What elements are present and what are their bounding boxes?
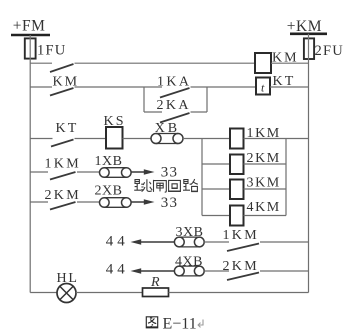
arrow from 44 (row6): [131, 239, 142, 244]
contact KM: [50, 88, 74, 96]
contact 2KA: [160, 113, 190, 123]
wire 2KA branch left drop: [143, 87, 145, 112]
svg-text:2KA: 2KA: [157, 98, 191, 113]
svg-text:XB: XB: [155, 121, 180, 136]
bus bar +KM: [290, 32, 327, 35]
contact KT: [51, 140, 74, 147]
coil 2KM: [230, 155, 244, 175]
wire 2KA branch right riser: [206, 87, 208, 112]
bottom row: wire left: [30, 292, 57, 294]
svg-text:1KM: 1KM: [223, 228, 259, 243]
wire right rail: [308, 60, 310, 293]
coil 4KM: [230, 206, 244, 226]
svg-text:33: 33: [161, 165, 178, 181]
svg-text:1KA: 1KA: [157, 75, 191, 90]
bus bar +FM: [11, 34, 50, 37]
svg-text:4KM: 4KM: [247, 200, 281, 215]
svg-text:t: t: [261, 81, 265, 95]
wire 2KM coil to bus: [244, 163, 287, 165]
wire 3XB to contact: [204, 241, 229, 243]
svg-text:3KM: 3KM: [247, 176, 281, 191]
svg-text:33: 33: [161, 195, 178, 211]
svg-text:4XB: 4XB: [175, 255, 203, 270]
arrow to trip 33 (row4): [132, 171, 149, 173]
svg-text:+KM: +KM: [287, 18, 322, 35]
wire branch 3 left: [202, 188, 230, 190]
row 3: wire: [30, 138, 52, 140]
svg-text:1KM: 1KM: [45, 157, 81, 172]
svg-text:R: R: [150, 275, 160, 290]
row 1: wire: [30, 62, 52, 64]
wire to 2XB: [77, 201, 100, 203]
wire 2KA branch bottom right: [191, 111, 208, 113]
row 2: wire: [30, 86, 52, 88]
wire 3KM coil to bus: [244, 188, 287, 190]
wire XB to bus: [183, 138, 230, 140]
wire KT coil to right rail: [270, 86, 309, 88]
arrow from 44 (row7): [131, 268, 142, 273]
link 2XB: [100, 198, 110, 208]
coil KM: [255, 53, 271, 73]
arrow to trip 33 (row5): [132, 201, 149, 203]
svg-text:+FM: +FM: [13, 18, 46, 35]
wire branch 4 left: [202, 215, 230, 217]
coil KT: [256, 78, 270, 95]
row 5: wire: [30, 201, 48, 203]
wire 2KA branch bottom left: [144, 111, 162, 113]
svg-text:1FU: 1FU: [37, 42, 66, 58]
wire resistor to right rail: [169, 292, 309, 294]
wire left rail: [29, 60, 31, 293]
svg-text:HL: HL: [57, 271, 79, 286]
link XB: [151, 134, 161, 144]
svg-text:1XB: 1XB: [95, 154, 123, 169]
svg-text:KT: KT: [56, 121, 79, 136]
wire 4XB to contact: [204, 270, 229, 272]
relay KS: [106, 127, 123, 149]
coil 1KM: [230, 129, 244, 149]
svg-text:E−11: E−11: [163, 316, 197, 333]
fuse 2FU: [304, 38, 314, 59]
svg-text:2KM: 2KM: [223, 259, 259, 274]
link 1XB: [100, 168, 110, 178]
svg-text:44: 44: [106, 261, 129, 277]
link 4XB: [174, 266, 184, 276]
wire 4KM coil to bus: [244, 215, 287, 217]
wire lamp to resistor: [76, 292, 143, 294]
wire row2 to KT coil: [191, 86, 257, 88]
wire row2: [75, 86, 163, 88]
wire KS to XB: [123, 138, 152, 140]
contact 2KM: [50, 202, 76, 210]
row 1 contact (KM): [50, 64, 74, 72]
svg-text:44: 44: [106, 233, 129, 249]
caption 图 E-11: [146, 317, 157, 328]
row 4: wire: [30, 171, 48, 173]
svg-text:3XB: 3XB: [176, 225, 204, 240]
wire to KS: [75, 138, 107, 140]
contact 2KM (row7): [227, 273, 259, 281]
svg-text:2FU: 2FU: [315, 43, 344, 59]
svg-text:2XB: 2XB: [95, 183, 123, 198]
svg-text:KS: KS: [104, 114, 126, 129]
wire row1 to coil: [75, 62, 256, 64]
wire to 1XB: [77, 171, 100, 173]
lamp HL: [57, 284, 76, 303]
wire row7 to right rail: [260, 270, 309, 272]
wire coil KM to right rail: [271, 62, 309, 64]
wire row6 to right rail: [260, 241, 309, 243]
svg-text:2KM: 2KM: [45, 188, 81, 203]
contact 1KM (row6): [227, 244, 259, 252]
wire 1KM coil to right rail: [244, 138, 309, 140]
wire branch 2 left: [202, 163, 230, 165]
coil 3KM: [230, 180, 244, 200]
fuse 1FU: [25, 38, 36, 58]
link 3XB: [174, 237, 184, 247]
label 跳闸回路 (trip circuit): [134, 179, 198, 192]
contact 1KM: [50, 172, 76, 180]
resistor R: [143, 288, 169, 297]
wire right coil bus: [285, 139, 287, 216]
contact 1KA: [160, 88, 190, 98]
wire left coil bus: [201, 139, 203, 216]
